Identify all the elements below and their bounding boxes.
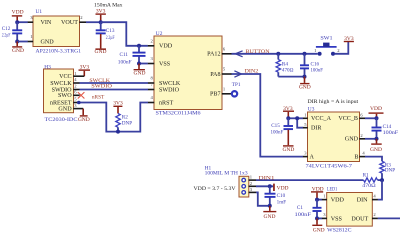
- svg-text:GND: GND: [282, 147, 294, 153]
- svg-text:PB7: PB7: [210, 92, 221, 98]
- node C10 bottom junction: [268, 204, 272, 208]
- ground under C1: [312, 218, 324, 233]
- svg-text:100nF: 100nF: [118, 59, 132, 65]
- svg-text:DNP: DNP: [385, 168, 395, 174]
- wire VDD to U1 VIN: [17, 21, 28, 23]
- svg-text:GND: GND: [299, 85, 311, 91]
- ground under C11: [134, 64, 146, 77]
- ground under C10: [263, 206, 276, 220]
- wire PA8/DIN2 to U3 A: [232, 74, 304, 157]
- wire PA12 to SW1: [232, 53, 318, 55]
- label C15 value: [271, 123, 284, 135]
- capacitor C13: [96, 22, 106, 33]
- ground at H3: [78, 109, 90, 123]
- svg-text:WS2812C: WS2812C: [327, 227, 352, 233]
- svg-text:GND: GND: [345, 137, 359, 143]
- svg-text:VCC: VCC: [59, 74, 72, 80]
- svg-text:GND: GND: [58, 107, 72, 113]
- LED LED1 body: [327, 193, 373, 227]
- resistor R2: [116, 113, 120, 131]
- svg-text:2.2µF: 2.2µF: [2, 33, 11, 39]
- label C11 value: [118, 52, 132, 65]
- svg-text:C12: C12: [2, 26, 11, 32]
- ground under C12: [12, 42, 24, 55]
- svg-text:GND: GND: [41, 39, 55, 45]
- test point TP1: [232, 82, 241, 96]
- wire U3 GND pin to C14: [365, 138, 377, 140]
- svg-text:A: A: [310, 155, 315, 161]
- power flag 3V3 (at C13): [96, 9, 106, 23]
- resistor R4: [276, 54, 280, 77]
- pin 1 VCC stub: [73, 71, 84, 76]
- pin 6 SWO stub: [73, 90, 80, 96]
- svg-text:B: B: [354, 155, 358, 161]
- label C16 value: [311, 61, 324, 73]
- svg-text:PA12: PA12: [207, 52, 220, 58]
- svg-text:GND: GND: [134, 71, 146, 77]
- wire nRST net H3 to U2: [79, 103, 149, 132]
- svg-text:H3: H3: [44, 64, 51, 70]
- pin 5 nRESET stub: [73, 97, 80, 103]
- pin 5 PA8 stub: [222, 67, 232, 74]
- svg-text:STM32C011J4M6: STM32C011J4M6: [156, 110, 201, 116]
- wire R4/C16 bottom rail: [278, 76, 304, 78]
- pin 8 SWCLK stub: [148, 76, 155, 83]
- svg-text:TP1: TP1: [232, 82, 241, 88]
- node R1/R3 junction: [380, 178, 384, 182]
- svg-text:C15: C15: [271, 123, 280, 129]
- pin 3 stub: [249, 187, 257, 192]
- pin 3 VSS stub: [148, 56, 155, 63]
- pin 4 B stub: [359, 151, 365, 157]
- node C16 bottom junction: [303, 75, 307, 79]
- power flag VDD (U3 B side): [369, 106, 384, 119]
- svg-text:VCC_B: VCC_B: [338, 116, 358, 122]
- pin 4 DIN stub: [372, 193, 378, 199]
- power flag VDD (H1, rotated): [273, 184, 288, 192]
- svg-text:R1: R1: [363, 172, 369, 178]
- pin 3 VSS stub: [322, 212, 327, 218]
- svg-text:DNP: DNP: [122, 121, 132, 127]
- svg-text:100MIL M TH 1x3: 100MIL M TH 1x3: [205, 171, 248, 177]
- node DIR junction: [295, 116, 299, 120]
- wire DIR tie-high: [297, 118, 303, 127]
- label C14 value: [383, 124, 399, 136]
- label R2 value: [122, 115, 132, 127]
- connector H3 body: [44, 69, 74, 113]
- node R2 bottom junction: [116, 130, 120, 134]
- wire SWCLK net H3 to U2: [80, 82, 149, 84]
- svg-text:LED1: LED1: [327, 186, 338, 192]
- label C13 value: [106, 28, 115, 41]
- label R1 value: [362, 172, 376, 189]
- svg-text:SWDIO: SWDIO: [91, 83, 112, 89]
- pin 1 VDD stub: [322, 193, 327, 199]
- svg-text:VDD: VDD: [370, 106, 382, 112]
- pin 2 VOUT stub: [79, 15, 86, 22]
- switch SW1: [316, 36, 337, 56]
- svg-text:TC2030-IDC: TC2030-IDC: [45, 117, 78, 123]
- pin 7 SWDIO stub: [148, 82, 155, 89]
- svg-text:DIN: DIN: [357, 198, 368, 204]
- wire H1 pin3 to gnd chain: [256, 192, 270, 205]
- pin circle 2: [242, 185, 246, 189]
- pin 4 nRST stub: [148, 95, 155, 102]
- node VDD/C1 junction: [315, 198, 319, 202]
- svg-text:GND: GND: [12, 48, 24, 54]
- node 3V3 junction: [99, 20, 103, 24]
- node VDD junction: [15, 20, 19, 24]
- wire DIN1 net to R1: [256, 179, 364, 181]
- svg-text:U1: U1: [36, 9, 43, 15]
- wire C12 to U1 GND pin: [17, 41, 28, 43]
- svg-text:C1: C1: [297, 205, 303, 211]
- node 3V3/C11 junction: [137, 44, 141, 48]
- power flag VDD (top-left): [12, 9, 24, 22]
- node C12 bottom junction: [15, 40, 19, 44]
- node R4 top junction: [276, 52, 280, 56]
- svg-text:SWCLK: SWCLK: [159, 81, 181, 87]
- pin 3 GND stub: [73, 103, 83, 109]
- svg-text:R4: R4: [282, 61, 288, 67]
- svg-text:SWCLK: SWCLK: [50, 81, 72, 87]
- capacitor C16: [300, 54, 309, 77]
- wire SWDIO net H3 to U2: [80, 89, 149, 91]
- svg-text:DOUT: DOUT: [351, 216, 368, 222]
- capacitor C15: [284, 118, 294, 129]
- svg-text:GND: GND: [313, 228, 325, 234]
- power flag 3V3 (H3 VCC): [79, 64, 91, 76]
- svg-text:C13: C13: [106, 28, 115, 34]
- capacitor C1: [313, 200, 322, 219]
- svg-text:VDD: VDD: [12, 9, 24, 15]
- node C16 top junction: [303, 52, 307, 56]
- svg-text:U2: U2: [156, 31, 163, 37]
- port arrow BUTTON: [235, 51, 242, 57]
- pin circle 1: [242, 178, 246, 182]
- svg-text:DIN1: DIN1: [259, 175, 276, 181]
- wire 3V3 rail to U2 VDD: [101, 22, 148, 46]
- wire R1 to R3/DIN junction: [378, 179, 383, 181]
- resistor R3: [380, 161, 384, 180]
- svg-text:470Ω: 470Ω: [362, 183, 376, 189]
- op-amp U1 body: [33, 16, 80, 47]
- svg-text:2.2µF: 2.2µF: [106, 35, 115, 41]
- capacitor C14: [372, 118, 382, 139]
- wire DOUT to edge: [378, 217, 400, 219]
- svg-text:nRST: nRST: [159, 100, 174, 106]
- svg-text:R2: R2: [122, 115, 128, 121]
- svg-text:C10: C10: [277, 193, 286, 199]
- svg-text:PA8: PA8: [210, 72, 220, 78]
- pin 2 stub: [249, 181, 257, 186]
- svg-text:VSS: VSS: [331, 216, 343, 222]
- port arrow DIN2: [234, 71, 241, 77]
- node nRESET pin junction: [77, 101, 81, 105]
- svg-text:GND: GND: [78, 117, 90, 123]
- label C10 value: [277, 193, 287, 206]
- node C14 bottom junction: [375, 137, 379, 141]
- svg-text:DIR high = A is input: DIR high = A is input: [308, 99, 359, 105]
- MCU U2 body: [154, 36, 222, 110]
- label R4 value: [282, 61, 294, 73]
- pin 1 GND stub: [28, 34, 34, 41]
- pin 2 VDD stub: [148, 39, 155, 46]
- wire 3V3 to VCC_A: [288, 117, 303, 119]
- capacitor C10: [265, 186, 276, 206]
- ground under C14: [370, 139, 382, 153]
- pin 1 PB7 stub: [222, 87, 232, 94]
- ground under C15: [282, 130, 294, 153]
- label C1 value: [295, 205, 312, 218]
- pin 2 SWDIO stub: [73, 84, 80, 90]
- svg-text:DIR: DIR: [311, 126, 322, 132]
- svg-text:AP2210N-3.3TRG1: AP2210N-3.3TRG1: [36, 49, 82, 55]
- svg-text:VIN: VIN: [41, 20, 52, 26]
- svg-text:U3: U3: [308, 106, 315, 112]
- svg-text:nRESET: nRESET: [50, 100, 72, 106]
- svg-text:470Ω: 470Ω: [282, 68, 294, 74]
- wire VDD to LED1 pin1: [317, 199, 322, 201]
- svg-text:SWDIO: SWDIO: [159, 87, 180, 93]
- svg-text:150mA Max: 150mA Max: [94, 2, 123, 8]
- pin 3 VIN stub: [28, 15, 34, 22]
- wire H1 pin2 to VDD: [256, 185, 273, 187]
- ground under C13: [95, 34, 107, 55]
- svg-text:VOUT: VOUT: [61, 20, 78, 26]
- svg-text:1mF: 1mF: [277, 199, 287, 205]
- node VDD/C14 junction: [375, 116, 379, 120]
- power flag VDD (LED1): [311, 186, 324, 199]
- svg-text:GND: GND: [370, 147, 382, 153]
- pin 1 stub: [249, 174, 257, 180]
- svg-text:GND: GND: [95, 49, 107, 55]
- svg-text:100nF: 100nF: [295, 212, 312, 218]
- node C10 top junction: [268, 184, 272, 188]
- wire VOUT to 3V3: [86, 21, 101, 23]
- wire B pin to R3: [365, 157, 382, 162]
- svg-text:VDD = 3.7 - 5.3V: VDD = 3.7 - 5.3V: [194, 186, 236, 192]
- svg-text:GND: GND: [264, 214, 276, 220]
- pin 2 GND stub: [359, 133, 365, 139]
- label R3 value: [385, 162, 395, 173]
- pin 3 A stub: [303, 151, 308, 157]
- svg-text:74LVC1T45W6-7: 74LVC1T45W6-7: [306, 164, 353, 170]
- power flag 3V3 (SW1): [344, 36, 354, 42]
- label C12 value: [2, 26, 11, 39]
- no-connect X on SWO: [78, 92, 85, 98]
- pin circle 3: [242, 191, 246, 195]
- power flag 3V3 (U3 A side): [283, 106, 294, 119]
- pin 6 PA12 stub: [222, 47, 232, 54]
- pin 5 DIR stub: [303, 122, 308, 128]
- node C1 bottom junction: [315, 216, 319, 220]
- svg-text:SWO: SWO: [58, 93, 72, 99]
- pin 4 SWCLK stub: [73, 77, 80, 83]
- svg-text:BUTTON: BUTTON: [246, 49, 270, 55]
- power flag 3V3 (R2 pullup): [113, 101, 123, 114]
- svg-text:VCC_A: VCC_A: [311, 116, 332, 122]
- svg-text:VDD: VDD: [159, 44, 173, 50]
- pin 2 DOUT stub: [372, 212, 378, 218]
- pin 6 VCC_B stub: [359, 113, 365, 119]
- svg-text:nRST: nRST: [92, 94, 105, 100]
- connector H1 body: [239, 176, 249, 197]
- svg-text:DIN2: DIN2: [245, 68, 259, 74]
- resistor R1: [364, 178, 378, 182]
- node 3V3/C15 junction: [286, 116, 290, 120]
- svg-text:VSS: VSS: [159, 61, 171, 67]
- capacitor C11: [133, 46, 146, 64]
- wire U2 VSS to C11: [139, 63, 148, 65]
- node VSS junction: [137, 62, 141, 66]
- capacitor C12: [12, 22, 22, 41]
- svg-text:VDD: VDD: [331, 198, 345, 204]
- svg-text:100nF: 100nF: [383, 130, 399, 136]
- svg-text:C11: C11: [120, 52, 129, 58]
- wire VCC_B to VDD: [365, 117, 377, 119]
- wire junction down to LED DIN: [378, 180, 382, 200]
- wire C1 to LED1 VSS: [317, 217, 322, 219]
- wire SW1 to 3V3: [335, 42, 348, 54]
- svg-text:100nF: 100nF: [311, 67, 324, 73]
- buffer U3 body: [308, 112, 360, 162]
- svg-text:VDD: VDD: [277, 186, 289, 192]
- pin 1 VCC_A stub: [303, 113, 308, 119]
- ground under C16: [299, 77, 311, 91]
- svg-text:SW1: SW1: [320, 36, 333, 42]
- svg-text:100nF: 100nF: [271, 129, 284, 135]
